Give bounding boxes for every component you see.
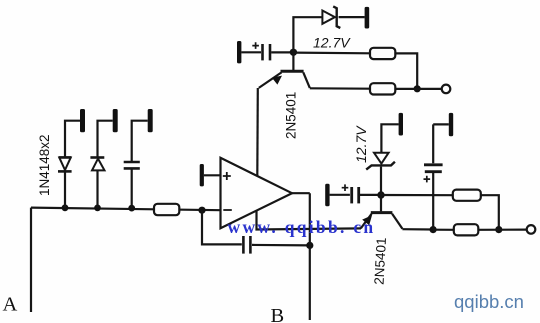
- transistor Q1 emitter lead: [259, 72, 282, 88]
- output terminal (bottom): [527, 225, 536, 234]
- wire: [339, 16, 365, 18]
- wire: up to zener Z1: [293, 17, 322, 52]
- diode D2 triangle (pointing up): [92, 159, 105, 171]
- transistor Q2 emitter arrow: [362, 215, 372, 225]
- wire: positive supply rail from Q1 emitter to op-amp: [256, 88, 259, 176]
- wire: drop to terminal A: [30, 208, 32, 312]
- diode D1 triangle: [59, 158, 70, 170]
- node: junction dot branch 2: [94, 205, 101, 212]
- zener Z2 cathode bar with hooks: [366, 162, 395, 170]
- wire: op-amp output: [292, 193, 310, 320]
- wire: Z2 up to rail: [381, 124, 398, 152]
- wire: branch 3 vertical: [132, 121, 148, 208]
- plus sign C4: [342, 184, 349, 191]
- terminal bar: noninverting input ground: [200, 164, 204, 186]
- wire: [271, 51, 293, 53]
- svg-text:2N5401: 2N5401: [284, 92, 299, 139]
- wire: noninverting input: [204, 174, 221, 176]
- transistor Q2 base bar: [371, 211, 393, 214]
- svg-text:12.7V: 12.7V: [353, 125, 369, 163]
- wire: [330, 194, 350, 196]
- wire: feedback to output: [252, 244, 310, 247]
- zener Z1 cathode bar with hooks: [333, 6, 340, 28]
- wire: main input line A to inverting node: [31, 208, 221, 211]
- svg-text:www. qqibb. cn: www. qqibb. cn: [228, 217, 376, 237]
- wire: R2 to corner and down: [395, 53, 417, 88]
- svg-text:2N5401: 2N5401: [372, 237, 389, 285]
- svg-text:1N4148x2: 1N4148x2: [37, 134, 52, 196]
- transistor Q1 emitter arrow: [272, 76, 282, 85]
- zener Z2 triangle: [374, 153, 389, 164]
- capacitor C3 polarized plates: [261, 44, 264, 60]
- transistor Q1 base lead: [292, 52, 294, 70]
- transistor Q1 collector lead: [303, 72, 310, 88]
- terminal bar branch 1: [80, 109, 85, 132]
- svg-text:B: B: [271, 305, 285, 323]
- wire: [241, 51, 261, 53]
- terminal bar: C5 rail: [449, 113, 453, 136]
- capacitor C5 plates: [424, 163, 443, 166]
- transistor Q2 collector lead: [392, 214, 402, 229]
- wire: C5 down to output line: [432, 173, 434, 230]
- node: junction dot branch 1: [62, 204, 69, 211]
- wire: node to R4: [381, 194, 453, 196]
- terminal bar: top section ground: [237, 41, 241, 63]
- node: Q1 base node: [290, 49, 297, 56]
- output terminal (top): [442, 85, 451, 94]
- capacitor C1 plates: [124, 161, 140, 164]
- wire: R5 to output: [478, 229, 526, 231]
- wire: rail to C5: [433, 124, 449, 163]
- svg-text:qqibb.cn: qqibb.cn: [454, 291, 524, 312]
- wire: node to R5: [433, 229, 454, 231]
- resistor R1: [154, 204, 179, 215]
- plus sign C3: [252, 42, 259, 49]
- zener Z1 triangle: [322, 11, 335, 24]
- node: inverting input junction: [198, 207, 205, 214]
- wire: R3 to output: [395, 88, 441, 90]
- terminal bar branch 3: [148, 109, 153, 132]
- node: [495, 226, 502, 233]
- wire: negative supply rail from op-amp to Q2 emitter: [257, 211, 362, 230]
- terminal bar: Z2 rail: [399, 113, 403, 136]
- transistor Q2 emitter lead: [361, 214, 372, 229]
- node: [414, 85, 421, 92]
- resistor R5: [454, 224, 479, 235]
- node: junction dot branch 3: [128, 205, 135, 212]
- diode D2 (1N4148) cathode bar: [90, 156, 104, 159]
- terminal bar: bottom section ground: [325, 184, 329, 206]
- svg-text:A: A: [3, 294, 18, 316]
- diode D1 (1N4148) cathode bar: [58, 170, 72, 173]
- wire: R4 to corner and down: [481, 195, 499, 229]
- node: Q2 base node: [377, 191, 384, 198]
- svg-text:12.7V: 12.7V: [313, 35, 351, 51]
- terminal bar: Z1 rail: [365, 7, 370, 29]
- capacitor C4 polarized plates: [350, 187, 353, 203]
- transistor Q2 base lead: [380, 195, 382, 211]
- wire: feedback drop from inverting node: [202, 210, 242, 244]
- capacitor C2 feedback plates: [242, 236, 245, 254]
- resistor R2: [370, 48, 395, 59]
- terminal bar branch 2: [113, 109, 118, 132]
- resistor R4: [453, 190, 481, 201]
- wire: [360, 194, 381, 196]
- transistor Q1 base bar: [281, 70, 304, 73]
- op-amp U1: [221, 158, 293, 228]
- zener Z2 wire below: [380, 167, 382, 195]
- wire: branch 2 vertical: [98, 121, 113, 208]
- wire: Q1 collector to R3: [310, 87, 370, 90]
- node: [430, 226, 437, 233]
- wire: Q2 collector to node: [402, 228, 433, 231]
- node: feedback/output junction: [306, 242, 313, 249]
- wire: branch 1 vertical: [65, 121, 80, 208]
- wire: node to R2: [293, 51, 370, 54]
- resistor R3: [370, 83, 395, 94]
- plus sign C5: [424, 176, 431, 183]
